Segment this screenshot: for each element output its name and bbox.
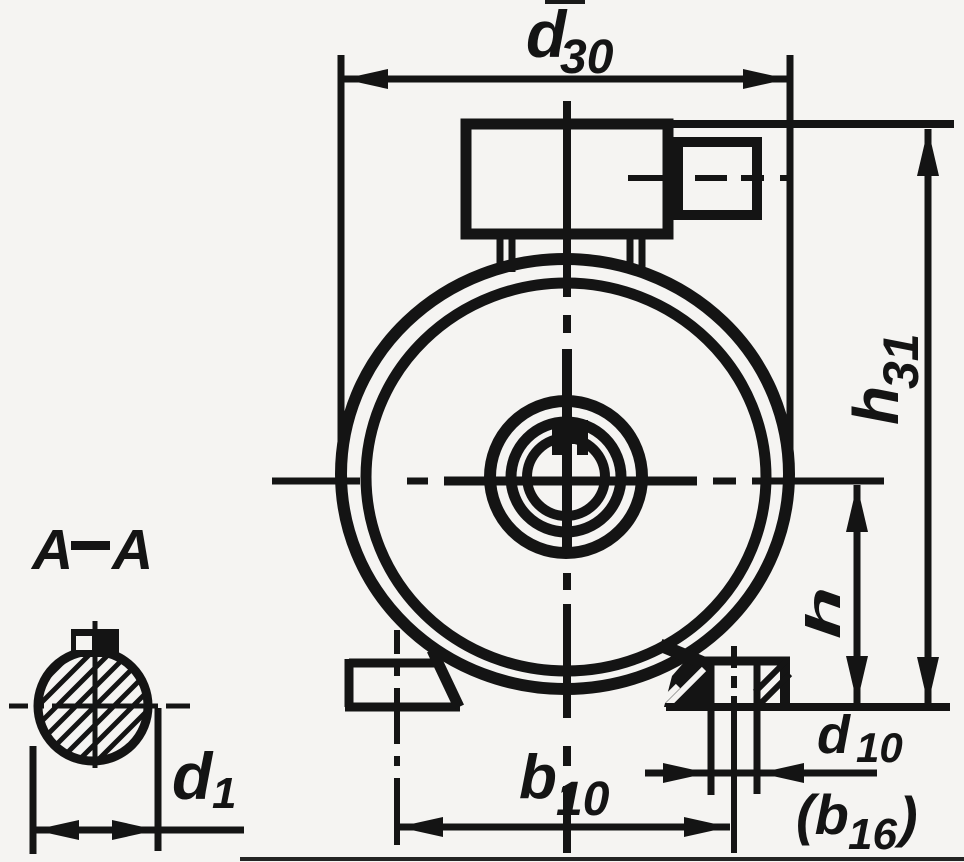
baseline extension [666, 703, 950, 711]
hub circle outer [490, 401, 642, 553]
svg-text:16: 16 [848, 810, 897, 859]
h31 dimension [840, 129, 939, 704]
horizontal centerline [272, 478, 884, 485]
keyway [71, 629, 119, 657]
hole edges [708, 662, 715, 795]
svg-text:h: h [840, 386, 912, 425]
(b16) label [796, 783, 918, 859]
b10 dimension [398, 743, 730, 837]
motor outer circle [341, 259, 789, 689]
d1 dimension [30, 708, 244, 854]
svg-text:d: d [172, 739, 214, 813]
d30 dimension [341, 0, 790, 500]
d10 dimension [645, 705, 903, 783]
svg-text:d: d [817, 705, 851, 765]
svg-text:h: h [797, 586, 851, 639]
svg-text:A: A [30, 518, 73, 582]
box support stubs [500, 232, 642, 272]
white slashes in black part [668, 669, 704, 705]
right foot bolt centerline [731, 646, 737, 853]
svg-text:30: 30 [560, 31, 614, 84]
shaft circle [527, 438, 605, 516]
A-A centerlines [9, 621, 190, 768]
terminal box [466, 124, 668, 234]
svg-text:10: 10 [856, 724, 903, 771]
left foot bolt centerline [394, 630, 400, 845]
scan artifact top edge [545, 0, 585, 4]
h31 top extension [466, 120, 954, 128]
vertical centerline [563, 101, 571, 853]
right foot [658, 645, 790, 795]
shaft section circle [38, 651, 148, 761]
shaft keyway blob [552, 420, 588, 455]
cable gland box [678, 142, 757, 215]
svg-text:1: 1 [212, 769, 236, 818]
gland centerline [628, 175, 793, 181]
hatch right part [755, 661, 786, 692]
hub circle middle [511, 422, 621, 532]
svg-text:(b: (b [796, 783, 849, 846]
svg-text:b: b [519, 743, 557, 812]
left foot [345, 650, 460, 707]
hatch [0, 565, 230, 810]
scan artifact bottom edge [240, 857, 964, 861]
h dimension [797, 485, 868, 703]
motor inner circle [366, 283, 766, 671]
svg-text:31: 31 [873, 333, 929, 389]
svg-text:10: 10 [556, 773, 610, 826]
svg-text:A: A [110, 518, 153, 582]
